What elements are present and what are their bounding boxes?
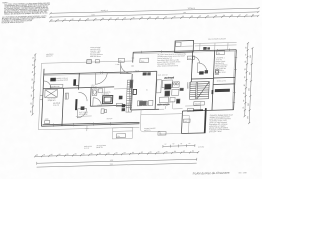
wc fixtures cluster [92,89,102,96]
building: right wing outer walls [130,50,236,113]
kitchen cluster fixtures [156,76,184,106]
window ticks left wall [40,96,43,100]
window symbol top wall right wing [142,49,230,54]
window ticks right wall [233,57,237,102]
small rects below bath [101,109,107,114]
window symbol bottom wall 2 [93,122,110,126]
label box on garage top wall [187,108,193,112]
terrace label [144,127,156,132]
stair landing wall [191,77,213,80]
small wc right of stairs [215,69,219,74]
cellier label bottom left [45,118,50,124]
bottom mini dimension chain (garage) [163,143,195,148]
tick below bottom wall center [85,125,88,131]
outer gutter line left [38,63,41,129]
title: PLAN du Rez-de-Chaussee [193,170,247,175]
right room text block [215,56,228,74]
terrace door wall segment [159,108,183,111]
legend text block (right of garage) [209,113,233,133]
porch edge line above left wing [41,61,132,63]
window band above top wall [195,42,237,50]
window arc on left wall [43,81,51,89]
dark box near sejour door [81,106,85,110]
interior wall wc vertical [89,88,92,107]
storage label box [183,119,190,123]
nook wall [76,115,92,117]
bottom dimension chain [34,150,199,157]
sejour label [53,103,61,107]
bottom dimension line 2 [37,158,197,165]
annex above top-right wall [175,40,194,52]
scan noise overlay [0,0,1,1]
interior wall left of stairs [191,51,192,82]
right vertical dimension chain A [242,42,249,117]
bottom porch steps [112,127,132,138]
window symbol bottom wall sejour [53,123,73,127]
door jamb left of stairs [188,82,190,89]
label box on porch line [87,60,92,64]
label box top right [216,51,224,55]
interior horizontal kitchen top [132,70,157,73]
top dimension chain [49,14,259,22]
dark framed appliance box [133,89,137,94]
wc text lines [102,92,111,96]
notes paragraph 2 [2,14,47,24]
door arc sejour upper [78,92,87,101]
left vertical dimension chain [30,53,36,115]
window tick pair top wall [101,72,103,74]
small dark marks above top wall [203,47,210,50]
divider wall between wings [129,58,134,110]
garage dark right wall [204,108,207,133]
interior wall kitchen right wing [155,71,157,109]
dark boxes left of ladder bottom [122,104,126,111]
garage bottom wall [181,132,205,135]
door arc stair landing [197,63,207,73]
bottom dimension line 3 (total) [37,161,197,167]
entry door arc [95,73,107,85]
interior wall horizontal center lower [90,105,131,106]
bottom small text block [84,144,106,150]
under-stair label box [194,101,205,105]
shower dark framed box [102,95,112,103]
terrace rounded outline [140,109,183,135]
interior wall sejour mid vertical [62,88,64,126]
small symbol on porch line [95,60,99,63]
understair wall [185,105,201,107]
storage room left of garage [181,111,189,134]
left wing top wall (double) [44,72,133,76]
right vertical dimension chain B [247,47,254,124]
door arc bath [93,98,102,107]
dark wall segment sejour right [75,99,77,110]
text bottom right of left wing [79,112,88,116]
dark cabinet boxes above stairs [199,70,208,75]
interior wall kitchen bottom [43,87,114,89]
terrace door arc [165,101,173,109]
kitchen wall cabinets dark cluster [143,72,151,75]
basement stair ladder [126,80,133,112]
top-left room: dark cabinet [50,78,56,82]
bath row right wing [137,100,153,105]
hall label box [118,58,124,62]
marks between shower and ladder [116,96,122,107]
interior wall bath/hall [103,87,105,96]
door arc sejour [77,109,86,118]
terrace label box [158,132,166,136]
hall label [91,83,97,88]
notes paragraph 1 (top-left) [2,0,50,15]
fireplace thick wall [73,79,79,86]
building: left wing outer walls [41,66,142,126]
door arc right wing top [192,56,199,63]
right rooms divider walls [212,50,236,111]
dark wall bar right of stairs [212,90,214,94]
top-left room label lines [55,78,68,82]
text under window [48,98,56,102]
hall door arc to right wing [120,63,131,74]
entry text block above porch [90,46,104,58]
porch step line [113,130,133,133]
stairs [189,82,209,100]
label box right of divider [140,58,149,63]
garage door lintel dark [193,109,203,111]
top dimension line 2 [49,10,259,18]
right wing room text cluster [157,52,186,67]
french window X symbol [45,89,58,97]
line above top wall right [194,42,237,43]
top dimension line 1 (overall) [49,5,259,14]
interior wall kitchen right [78,73,81,89]
understair wall vertical [199,101,201,110]
dark bench bar right [215,89,230,92]
radiator marks middle room [65,93,68,99]
kitchen label strip box [50,84,63,88]
label box left of stairs [187,56,194,60]
leader text above left wing [46,53,54,58]
bottom outer gutter line [38,127,139,130]
leader from 240 box [119,62,121,70]
